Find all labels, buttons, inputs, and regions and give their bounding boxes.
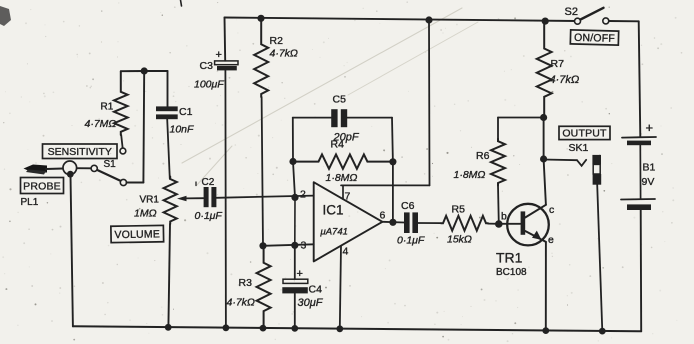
wire pin 4 stub <box>340 246 341 329</box>
node R6 branch <box>540 114 547 121</box>
wire feedback left riser <box>292 118 294 162</box>
svg-text:1·8MΩ: 1·8MΩ <box>326 172 358 184</box>
wire battery minus down to bottom rail <box>640 210 643 331</box>
svg-text:0·1μF: 0·1μF <box>195 210 223 222</box>
node bottom / pin 4 <box>336 325 343 332</box>
svg-text:R2: R2 <box>270 35 284 47</box>
wire VR1 to bottom rail <box>168 224 170 327</box>
svg-text:VR1: VR1 <box>140 195 160 206</box>
wire pin6 to C6 <box>382 221 404 224</box>
node top rail / pin7 feed <box>425 16 432 23</box>
svg-text:2: 2 <box>300 189 306 201</box>
wire pin7 supply run <box>341 184 430 186</box>
svg-text:C2: C2 <box>202 177 215 188</box>
svg-text:b: b <box>501 211 507 223</box>
svg-text:S2: S2 <box>565 6 578 18</box>
label ON/OFF boxed <box>570 30 618 45</box>
wire SK1 to bottom rail <box>597 185 602 331</box>
wire node A to C1 <box>144 70 167 72</box>
svg-text:100μF: 100μF <box>194 79 224 91</box>
wire node A to R1 top <box>121 70 144 72</box>
svg-text:ON/OFF: ON/OFF <box>574 32 615 45</box>
node input A <box>141 67 148 74</box>
capacitor C1 plate 2 <box>156 114 178 119</box>
svg-text:10nF: 10nF <box>170 124 195 136</box>
wire C6 to R5 <box>418 222 441 224</box>
wire top supply rail <box>225 18 577 22</box>
wire emitter to bottom rail <box>545 242 547 331</box>
jack plug tip (check mark) <box>577 160 586 166</box>
svg-text:PL1: PL1 <box>21 197 39 208</box>
TR1 emitter arrow <box>532 231 542 240</box>
wire base into TR1 <box>499 223 520 225</box>
capacitor C5 plate 1 <box>331 109 337 127</box>
probe tip PL1 <box>24 165 48 173</box>
svg-text:R6: R6 <box>476 150 490 162</box>
transistor TR1 body <box>507 204 549 246</box>
resistor R2 <box>254 18 268 97</box>
resistor R1 <box>114 71 128 135</box>
node top rail / R2 <box>257 15 264 22</box>
svg-text:4·7kΩ: 4·7kΩ <box>550 74 580 86</box>
R1 open contact <box>120 148 126 154</box>
svg-text:+: + <box>297 268 303 280</box>
node bottom / C3 <box>223 324 230 331</box>
svg-text:9V: 9V <box>642 176 655 188</box>
battery B1 cell 1 long plate <box>622 136 656 139</box>
node feedback left <box>289 158 296 165</box>
node bottom / emitter <box>542 327 549 334</box>
svg-text:R7: R7 <box>551 58 565 70</box>
svg-text:μA741: μA741 <box>320 227 348 238</box>
node bottom / C4 <box>291 325 298 332</box>
svg-text:IC1: IC1 <box>323 203 344 218</box>
svg-text:R1: R1 <box>101 102 114 113</box>
socket SK1 body lower <box>593 174 602 185</box>
wire pin2 node to pin3 node <box>294 197 296 245</box>
svg-text:C1: C1 <box>179 106 193 118</box>
node probe junction <box>67 171 74 178</box>
wire top rail corner to C3 <box>224 18 227 61</box>
svg-text:C5: C5 <box>333 94 347 106</box>
svg-text:4·7kΩ: 4·7kΩ <box>270 48 298 60</box>
capacitor C3 plate 2 (solid) <box>217 66 237 70</box>
capacitor C2 plate 1 <box>204 187 209 207</box>
svg-text:4: 4 <box>343 246 349 258</box>
svg-text:C3: C3 <box>200 60 214 72</box>
svg-text:R3: R3 <box>239 277 253 289</box>
VR1 wiper arrow <box>177 196 187 202</box>
node bottom / R3 <box>260 325 267 332</box>
node pin3 left <box>259 242 266 249</box>
svg-text:0·1μF: 0·1μF <box>397 235 425 247</box>
node pin 2 <box>291 194 298 201</box>
resistor R5 <box>441 216 488 231</box>
svg-text:7: 7 <box>345 191 351 203</box>
label VOLUME boxed <box>111 225 164 242</box>
capacitor C4 plate 2 (solid) <box>282 287 308 293</box>
switch S2 lever <box>581 8 604 20</box>
svg-text:SK1: SK1 <box>569 142 589 154</box>
wire probe tip to node <box>46 168 63 171</box>
wire R6 to base <box>497 186 500 225</box>
wire R5 to base <box>488 223 499 225</box>
svg-text:3: 3 <box>301 240 307 252</box>
svg-text:1·8MΩ: 1·8MΩ <box>454 169 486 181</box>
resistor R6 <box>491 139 505 186</box>
svg-text:B1: B1 <box>643 162 656 174</box>
svg-text:4·7MΩ: 4·7MΩ <box>85 118 117 130</box>
wire C4 to bottom rail <box>294 293 296 328</box>
capacitor C1 plate 1 <box>156 106 178 111</box>
svg-text:C4: C4 <box>309 284 323 296</box>
wire bottom ground rail <box>73 326 641 331</box>
label SENSITIVITY boxed <box>43 144 118 159</box>
battery inter-cell link <box>639 145 641 199</box>
op-amp IC1 triangle <box>314 182 383 261</box>
transistor TR1 base bar <box>521 211 526 234</box>
svg-text:TR1: TR1 <box>496 250 523 266</box>
svg-text:OUTPUT: OUTPUT <box>562 128 607 140</box>
battery B1 cell 2 short plate <box>627 204 651 210</box>
svg-text:4·7kΩ: 4·7kΩ <box>227 297 255 309</box>
svg-text:R5: R5 <box>452 204 466 216</box>
wire pin 7 stub <box>342 185 344 199</box>
wire S2 to right edge <box>609 20 639 22</box>
label OUTPUT boxed <box>559 126 610 139</box>
potentiometer VR1 <box>164 177 177 225</box>
svg-text:1MΩ: 1MΩ <box>134 208 157 220</box>
wire C2 to pin 2 <box>216 196 313 198</box>
wire feedback right to output node <box>392 162 394 223</box>
transistor TR1 emitter lead <box>525 231 546 242</box>
socket SK1 body upper <box>592 155 601 165</box>
wire collector riser <box>544 159 546 205</box>
svg-text:15kΩ: 15kΩ <box>447 234 472 246</box>
switch S1 lever <box>97 170 120 181</box>
battery B1 cell 2 long plate <box>621 198 655 201</box>
node bottom / VR1 <box>165 324 172 331</box>
switch S1 moving contact <box>120 179 126 185</box>
svg-text:c: c <box>549 204 554 216</box>
svg-text:PROBE: PROBE <box>23 180 61 192</box>
transistor TR1 collector lead <box>525 205 546 218</box>
wire R2 to pin3 node <box>262 97 263 246</box>
node output branch <box>540 155 547 162</box>
wire C5 to feedback right riser <box>347 117 392 119</box>
wire R6 top <box>498 117 544 119</box>
svg-text:e: e <box>548 234 554 246</box>
svg-text:BC108: BC108 <box>496 267 527 278</box>
switch S2 left contact <box>575 18 581 24</box>
node pin3 / C4 <box>291 242 298 249</box>
svg-text:R4: R4 <box>331 139 345 151</box>
wire output branch <box>544 159 577 162</box>
svg-text:6: 6 <box>380 210 386 222</box>
capacitor C3 plate 1 (hollow) <box>215 61 238 65</box>
battery B1 cell 1 short plate <box>627 141 651 146</box>
svg-text:+: + <box>216 49 222 61</box>
capacitor C6 plate 1 <box>404 212 410 233</box>
wire right edge down to battery <box>639 21 641 136</box>
svg-text:S1: S1 <box>104 159 117 170</box>
resistor R3 <box>257 246 271 328</box>
capacitor C4 plate 1 (hollow) <box>283 279 308 283</box>
wire probe node to S1 <box>77 167 91 169</box>
capacitor C5 plate 2 <box>341 109 347 127</box>
wire collector riser upper <box>543 118 545 160</box>
node feedback right <box>389 158 396 165</box>
switch S2 right contact <box>603 18 609 24</box>
node base <box>495 220 503 228</box>
node bottom / SK1 <box>599 328 606 335</box>
socket SK1 body middle <box>593 164 600 174</box>
capacitor C2 plate 2 <box>211 187 216 207</box>
svg-text:C6: C6 <box>401 200 415 212</box>
wire C3 to bottom rail <box>224 70 227 327</box>
resistor R4 <box>293 154 393 168</box>
svg-text:VOLUME: VOLUME <box>114 228 160 241</box>
wire C4 top <box>294 245 296 279</box>
svg-text:+: + <box>646 120 654 135</box>
resistor R7 <box>537 21 552 117</box>
wire C1 to VR1 <box>167 119 170 179</box>
probe node ring <box>63 161 77 175</box>
label PROBE boxed <box>21 178 64 194</box>
capacitor C6 plate 2 <box>412 212 418 233</box>
wire pin3 row <box>263 244 314 246</box>
svg-text:30μF: 30μF <box>298 297 324 309</box>
node top rail / R7 <box>542 18 549 25</box>
wire feedback to pin2 node <box>293 162 295 198</box>
svg-text:SENSITIVITY: SENSITIVITY <box>48 146 112 158</box>
node output pin 6 <box>389 219 396 226</box>
wire left edge down <box>71 176 73 327</box>
wire S1 to input node riser <box>127 182 144 184</box>
switch S1 left contact <box>91 165 97 171</box>
